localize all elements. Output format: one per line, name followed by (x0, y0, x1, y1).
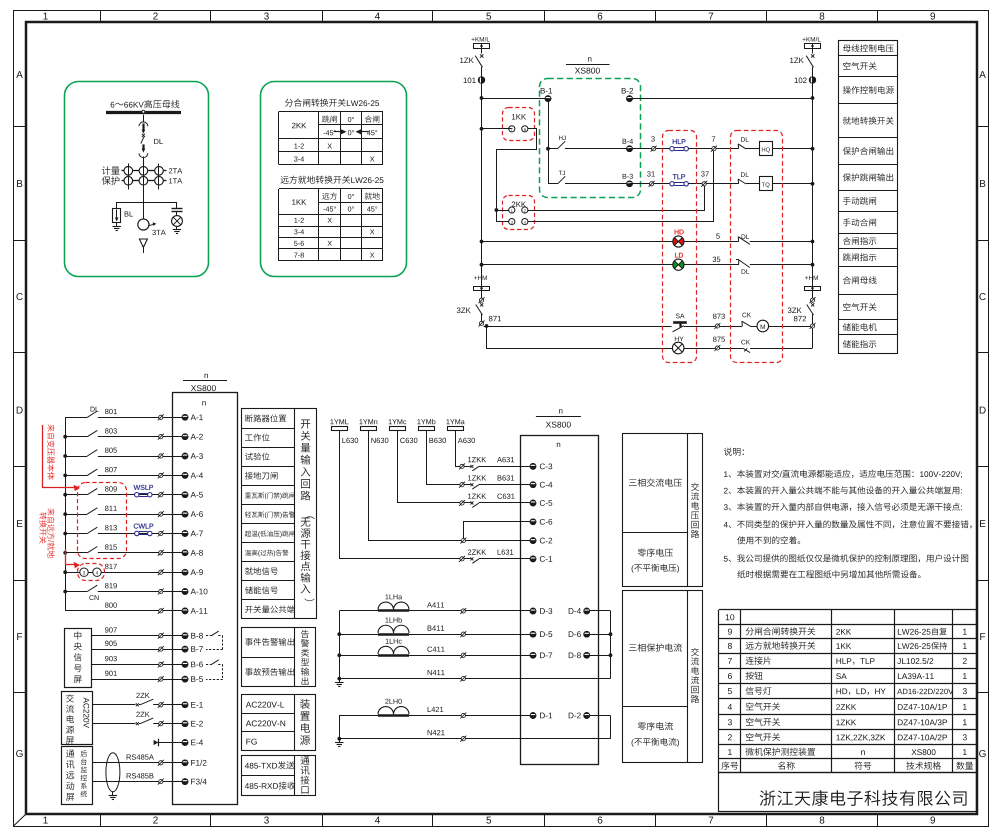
2KK table text (292, 115, 379, 161)
wire (340, 716, 379, 739)
wiring terminal (159, 531, 163, 535)
label B-2 (622, 88, 633, 94)
indication column (red dashed) (663, 131, 697, 363)
label 3ZK right (788, 308, 802, 314)
wire feed to 2KK-1 (496, 210, 508, 212)
wiring terminal (159, 677, 163, 681)
connecting link TLP (674, 182, 684, 184)
label C411 (427, 647, 444, 652)
terminal 875 (715, 346, 719, 350)
label A411 (427, 602, 444, 607)
label B630 (429, 438, 446, 443)
contact TJ (548, 183, 558, 185)
breaker 3ZK right (811, 303, 814, 306)
label C630 (400, 438, 417, 443)
label B411 (428, 626, 445, 631)
panel 通讯远动屏 (62, 747, 93, 805)
node 101 (478, 77, 484, 83)
label F3/4 (191, 778, 206, 784)
wire (479, 558, 530, 560)
wire (163, 572, 182, 574)
label RS485A (127, 754, 154, 759)
wire (481, 67, 483, 286)
wire (750, 326, 757, 328)
junction (337, 632, 341, 636)
label 保护 (102, 176, 120, 185)
device terminal B-8 (182, 633, 188, 639)
switch tables enclosure (261, 82, 407, 277)
junction (485, 324, 489, 328)
wire HQ to rail (772, 148, 813, 150)
label 1KK (512, 114, 526, 119)
wire B630 (427, 431, 460, 485)
1KK switch table grid (279, 189, 384, 262)
wire rail to HY row (812, 328, 814, 348)
wiring terminal (461, 609, 465, 613)
coil TQ (760, 177, 773, 191)
link CWLP (139, 531, 148, 533)
wire (98, 552, 159, 554)
contact DL (HD row) (737, 237, 739, 242)
circuit breaker DL (drawout) (139, 122, 148, 158)
wiring terminal (461, 539, 465, 543)
wiring terminal (159, 493, 163, 497)
wire (720, 326, 743, 328)
terminal 3 (652, 147, 656, 151)
fuse label +HM (474, 276, 487, 280)
breaker contact 1ZKK (C-4) (464, 484, 471, 486)
wire (465, 715, 530, 717)
wire (163, 704, 182, 706)
wire row 800 (65, 610, 159, 612)
wire 1KK to 2KK feed (497, 129, 537, 211)
label 907 (105, 627, 117, 632)
external alarm contact (dashed) (206, 664, 212, 666)
label 811 (105, 506, 117, 511)
wire (630, 148, 652, 150)
wire (746, 183, 760, 185)
label C-3 (540, 463, 552, 469)
label 871 (489, 316, 501, 322)
label C-6 (540, 519, 552, 525)
CT 2LH0 (385, 699, 402, 704)
device terminal D-5 (530, 631, 536, 637)
device terminal A-5 (182, 492, 188, 498)
junction (63, 551, 67, 555)
device terminal A-4 (182, 473, 188, 479)
junction (337, 653, 341, 657)
wire (479, 502, 530, 504)
wire (98, 417, 159, 419)
link WSLP (139, 493, 148, 495)
wire rail to 1KK (482, 128, 512, 130)
breaker 1ZK right (811, 54, 814, 57)
label L421 (428, 707, 444, 712)
wire (65, 572, 80, 574)
device power label box (242, 695, 316, 751)
wire (465, 634, 530, 636)
wire (116, 202, 118, 208)
PT fuse 1YMn (359, 419, 377, 424)
2KK terminal 4 (522, 219, 528, 225)
device XS800 #1 n (202, 401, 205, 405)
wiring terminal (159, 454, 163, 458)
coil HQ (760, 142, 773, 156)
wire down to HY row (487, 327, 673, 349)
company title block (719, 773, 977, 812)
label HLP (673, 139, 686, 144)
terminal B-1 (545, 96, 551, 102)
wire (750, 241, 813, 243)
wire (688, 183, 702, 185)
surge arrester BL (113, 209, 121, 231)
fuse 3ZK-b (+HM) (805, 287, 821, 291)
wire (684, 348, 715, 350)
wire (163, 781, 182, 783)
label B-6 (191, 661, 203, 667)
device label n / XS800 (588, 57, 591, 61)
contact (input 807) (65, 475, 87, 477)
junction (63, 454, 67, 458)
wire (706, 183, 738, 185)
breaker 3ZK left (480, 303, 483, 306)
label 815 (105, 544, 117, 549)
N421 wire (339, 738, 461, 740)
junction (609, 653, 613, 657)
CT bus ground (339, 679, 341, 683)
PT fuse 1YMa (446, 419, 464, 424)
red leader arrow 1 (42, 425, 44, 488)
PT fuse 1YMb (417, 419, 435, 424)
breaker contact 2ZKK (464, 558, 471, 560)
1KK terminal 8 (522, 126, 528, 132)
label SA (676, 314, 685, 319)
wire A630 (456, 431, 460, 467)
wire (684, 326, 716, 328)
label D-2 (569, 713, 581, 719)
device XS800 #2 box (521, 436, 599, 765)
1KK table text (292, 192, 380, 257)
wire (98, 456, 159, 458)
wiring terminal (461, 653, 465, 657)
lamp HD (673, 238, 679, 246)
wire (812, 48, 814, 53)
label N630 (371, 438, 388, 443)
table title 分合闸转换开关LW26-25 (285, 99, 346, 107)
label E-1 (191, 702, 203, 708)
wire (143, 157, 145, 164)
label 809 (105, 486, 117, 491)
connecting link HLP (674, 147, 684, 149)
wire (98, 514, 159, 516)
label 1ZKK (468, 494, 486, 499)
terminal (479, 298, 483, 302)
wiring terminal (460, 464, 464, 468)
label 101 (464, 78, 476, 84)
wiring terminal (159, 551, 163, 555)
contact DL (HQ row) (737, 144, 739, 149)
breaker 1ZK left (480, 54, 483, 57)
wire C-6 tie (464, 522, 531, 539)
PT fuse 1YMc (389, 419, 407, 424)
wiring terminal (159, 473, 163, 477)
breaker contact 2ZK (136, 703, 139, 706)
wire TQ to rail (772, 183, 813, 185)
wire (339, 655, 378, 657)
device terminal E-4 (182, 740, 188, 746)
device terminal D-3 (530, 608, 536, 614)
wire (98, 494, 159, 496)
bus tap node (142, 110, 145, 113)
label DL (154, 139, 163, 144)
single-line diagram enclosure (65, 82, 209, 277)
label 1ZK right (790, 58, 804, 63)
wire (92, 723, 135, 725)
label A-6 (191, 511, 203, 517)
device terminal A-6 (182, 511, 188, 517)
device terminal C-2 (530, 538, 536, 544)
label CK (HY row) (741, 340, 750, 345)
CT 1LHc (386, 639, 402, 644)
wiring terminal (460, 557, 464, 561)
wire RS485A (92, 762, 159, 764)
wiring terminal (159, 570, 163, 574)
wire (479, 484, 530, 486)
wire row 903 (91, 664, 158, 666)
contact DL row 801 (65, 417, 87, 419)
selector switch 1KK box (503, 108, 535, 141)
label D-4 (569, 608, 581, 614)
contact CK (motor row) (741, 321, 743, 326)
label 1ZKK (468, 457, 486, 462)
label B-4 (623, 139, 633, 144)
wire row 905 (91, 649, 158, 651)
wire (590, 610, 611, 612)
input circuit label column (242, 409, 317, 620)
label A-4 (191, 473, 203, 479)
current circuit label box (623, 590, 703, 763)
device terminal F3/4 (182, 779, 188, 785)
2KK terminal 1 (509, 207, 515, 213)
label 3TA (152, 230, 165, 235)
label 807 (105, 467, 117, 472)
label B-3 (623, 174, 633, 179)
label E-2 (191, 721, 203, 727)
wire B-2 to right rail (630, 98, 813, 100)
junction (609, 632, 613, 636)
label A-1 (191, 414, 203, 420)
wiring terminal (159, 761, 163, 765)
wire (750, 264, 813, 266)
device terminal B-7 (182, 646, 188, 652)
label 1ZKK (468, 475, 486, 480)
terminal B-2 (627, 96, 633, 102)
contact (input 805) (65, 456, 87, 458)
label 901 (105, 671, 117, 676)
label 计量 (102, 166, 120, 175)
2KK terminal 3 (509, 219, 515, 225)
junction (337, 737, 341, 741)
wire (479, 466, 530, 468)
label 2ZKK (468, 549, 486, 554)
label 819 (105, 583, 117, 588)
label LD (675, 253, 683, 258)
label A-5 (191, 492, 203, 498)
wire (163, 610, 182, 612)
distribution wire (117, 202, 178, 204)
wire (163, 679, 182, 681)
wiring terminal (159, 589, 163, 593)
label D-3 (540, 608, 552, 614)
wiring terminal (159, 634, 163, 638)
label A-2 (191, 434, 203, 440)
device terminal A-8 (182, 550, 188, 556)
fuse label +HM right (805, 276, 818, 280)
label 37 (701, 171, 709, 176)
junction (63, 493, 67, 497)
wire (163, 417, 182, 419)
label DL (HD row) (742, 234, 750, 239)
fuse label +KM/L (472, 37, 490, 42)
fuse 1ZK-a (+KM/L) (474, 44, 490, 49)
terminal 37 (702, 182, 706, 186)
junction (546, 147, 550, 151)
label A-9 (191, 569, 203, 575)
label 31 (647, 171, 655, 176)
device terminal C-1 (530, 556, 536, 562)
terminal B-3 (627, 181, 633, 187)
open arrow down (139, 239, 147, 248)
contact DL (TQ row) (737, 179, 739, 184)
terminal 31 (650, 182, 654, 186)
input rail (65, 417, 67, 611)
wire feed to 2KK-3 (497, 211, 509, 222)
wire (143, 190, 145, 220)
device terminal C-5 (530, 500, 536, 506)
alarm output label box (242, 627, 316, 687)
HV bus bar (106, 111, 181, 114)
wire (590, 655, 611, 657)
zero-seq CT 3TA (138, 219, 149, 230)
label 1TA (169, 178, 182, 183)
device terminal D-1 (530, 713, 536, 719)
label HD (675, 230, 684, 235)
label 2ZK (136, 693, 149, 698)
wiring terminal (159, 703, 163, 707)
device terminal A-10 (182, 589, 188, 595)
wire (163, 552, 182, 554)
wire L630 (340, 431, 460, 559)
contact (input 803) (65, 436, 87, 438)
wire (688, 148, 711, 150)
red dashed oval (1KK aux) (78, 564, 105, 581)
contact (input 813) (65, 533, 87, 535)
2KK switch table grid (279, 112, 384, 165)
contact CN (65, 591, 87, 593)
device XS800 #2 header (559, 409, 562, 413)
wire (465, 655, 530, 657)
label F1/2 (191, 760, 206, 766)
wire (716, 148, 739, 150)
wire (163, 762, 182, 764)
label RS485B (127, 773, 154, 778)
wiring terminal (461, 713, 465, 717)
label L630 (342, 438, 358, 443)
junction (63, 512, 67, 516)
label CWLP (134, 524, 154, 529)
wire 2KK-4 to 7 column (528, 151, 714, 222)
contact (input 811) (65, 514, 87, 516)
notes text 说明 (724, 448, 972, 579)
label 905 (105, 641, 117, 646)
label DL (741, 137, 749, 142)
label 102 (795, 78, 807, 84)
device terminal E-1 (182, 702, 188, 708)
left CT bus (339, 611, 341, 679)
label 4631 (498, 475, 515, 480)
label 875 (713, 337, 725, 342)
wire LD row (482, 264, 673, 266)
label TJ (559, 171, 565, 175)
label A-7 (191, 531, 203, 537)
label WSLP (134, 485, 153, 490)
contact (input 815) (65, 552, 87, 554)
label DL (LD row) (742, 269, 750, 274)
panel 交流电源屏 (62, 692, 93, 745)
label 801 (105, 409, 117, 414)
shield drain to ground (112, 792, 114, 796)
breaker contact 1ZKK (C-3) (464, 466, 471, 468)
label 3 (651, 136, 655, 141)
wire (481, 314, 483, 321)
wire (98, 436, 159, 438)
table title 远方就地转换开关LW26-25 (281, 176, 351, 184)
red note 来自远方/就地转换开关 (47, 508, 54, 558)
wiring terminal (159, 647, 163, 651)
label 7 (712, 136, 715, 141)
wire HD row (482, 241, 673, 243)
wiring terminal (461, 632, 465, 636)
wire (163, 494, 182, 496)
twisted pair shield (106, 753, 120, 792)
wire (163, 591, 182, 593)
motor M (757, 320, 769, 332)
CT 1LHa (385, 594, 402, 599)
label DL (91, 407, 99, 412)
pushbutton SA (673, 321, 687, 324)
terminal 872 (810, 324, 814, 328)
wire B-1 down (548, 99, 550, 184)
device terminal B-5 (182, 676, 188, 682)
label 903 (105, 656, 117, 661)
label DL (TQ row) (741, 172, 749, 177)
label 1ZK (460, 58, 474, 63)
wire (98, 533, 159, 535)
device terminal D-8 (584, 652, 590, 658)
wire (630, 183, 650, 185)
device terminal C-4 (530, 482, 536, 488)
wiring terminal (159, 512, 163, 516)
wire (98, 475, 159, 477)
PT/discharge device (172, 202, 183, 234)
device terminal A-11 (182, 608, 188, 614)
wire TJ to B-3 (565, 183, 630, 185)
CT 1LHb (385, 617, 401, 622)
N411 wire (339, 678, 461, 680)
wire HJ to B-4 (565, 148, 630, 150)
wiring terminal (159, 722, 163, 726)
wire (163, 723, 182, 725)
